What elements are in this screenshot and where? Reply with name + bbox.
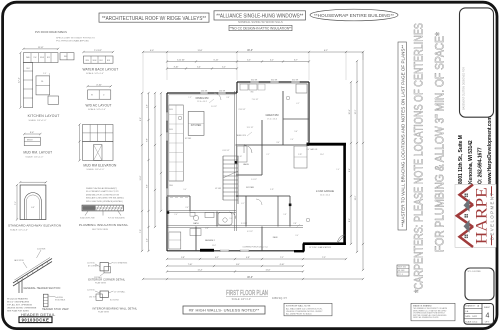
svg-text:SINK: SINK [93,60,98,62]
svg-text:Kenosha, WI 53142: Kenosha, WI 53142 [468,140,474,184]
svg-text:PLUMBING INSULATION DETAIL: PLUMBING INSULATION DETAIL [79,223,129,227]
svg-text:LAUN.: LAUN. [243,163,249,166]
svg-text:10'-1": 10'-1" [355,109,357,114]
svg-text:PLAN VIEW: PLAN VIEW [95,281,106,284]
svg-text:1'-4": 1'-4" [336,169,340,171]
svg-text:NOMINAL SIZING W/ WOOD SILLS: NOMINAL SIZING W/ WOOD SILLS [238,20,283,24]
svg-text:2'-8": 2'-8" [293,223,297,225]
svg-text:6'-10": 6'-10" [280,264,285,266]
svg-text:SCALE: 1/2"=1'-0": SCALE: 1/2"=1'-0" [10,228,28,231]
svg-text:7'-10": 7'-10" [188,264,193,266]
svg-text:DEVELOPMENT: DEVELOPMENT [490,192,495,241]
svg-text:5'-0": 5'-0" [229,218,233,220]
svg-text:4'-6": 4'-6" [147,104,149,108]
svg-text:2'-0": 2'-0" [43,73,47,75]
svg-text:7'-1": 7'-1" [280,257,284,259]
svg-text:1/4/22: 1/4/22 [472,316,477,318]
svg-text:B24: B24 [100,60,103,62]
svg-text:4: 4 [486,313,490,320]
svg-text:W/ (2)2x10 HEADERS: W/ (2)2x10 HEADERS [7,298,28,301]
svg-text:3050 SH: 3050 SH [271,80,278,82]
svg-text:2840 SH: 2840 SH [219,91,226,93]
svg-text:17'-2": 17'-2" [19,77,21,83]
svg-text:BATH: BATH [193,222,199,225]
svg-text:**HOUSEWRAP ENTIRE BUILDING**: **HOUSEWRAP ENTIRE BUILDING** [314,13,394,19]
svg-text:HEADER STUD VIEW: HEADER STUD VIEW [42,308,69,311]
svg-text:EXTERIOR WALL NOTE:: EXTERIOR WALL NOTE: [286,305,311,308]
svg-text:#9' HIGH WALLS- UNLESS NOTED**: #9' HIGH WALLS- UNLESS NOTED** [189,308,260,313]
svg-text:2'-10": 2'-10" [238,156,242,158]
svg-text:3'-0": 3'-0" [276,142,280,144]
svg-text:9'-4": 9'-4" [349,168,351,172]
svg-text:6'-11": 6'-11" [214,60,219,62]
svg-text:SCALE: 1/4"=1'-0": SCALE: 1/4"=1'-0" [86,72,104,75]
svg-text:DRAWN BY:: DRAWN BY: [465,305,476,308]
svg-text:PLAN VIEW: PLAN VIEW [98,310,109,313]
svg-text:(MIN) WALL FLEX CONSTRUCTION: (MIN) WALL FLEX CONSTRUCTION [86,193,120,196]
svg-text:**ALLIANCE SINGLE-HUNG WINDOWS: **ALLIANCE SINGLE-HUNG WINDOWS** [216,14,303,20]
svg-text:4'-8": 4'-8" [246,257,250,259]
svg-text:2x4 STUD: 2x4 STUD [87,290,96,292]
svg-text:JA: JA [477,305,480,308]
svg-text:2'-4": 2'-4" [185,207,189,209]
svg-text:W/ 1/2" OSB SPACERS: W/ 1/2" OSB SPACERS [7,301,30,304]
svg-text:6'-7": 6'-7" [294,60,298,62]
svg-text:4'-10": 4'-10" [96,84,102,86]
svg-text:20'-0": 20'-0" [320,154,324,156]
svg-text:FOR PLUMBING & ALLOW 3" MIN. O: FOR PLUMBING & ALLOW 3" MIN. OF SPACE* [433,32,447,252]
svg-text:INTERIOR BEARING WALL DETAIL: INTERIOR BEARING WALL DETAIL [92,307,137,311]
svg-text:2x6 STUD: 2x6 STUD [87,263,96,265]
svg-text:JACK STUD: JACK STUD [14,259,25,262]
svg-text:6'-2": 6'-2" [215,257,219,259]
svg-text:SPECS LIGHT W/ 8 INLET FITTING: SPECS LIGHT W/ 8 INLET FITTING TO [56,38,95,40]
svg-text:STANDARD ARCHWAY ELEVATION: STANDARD ARCHWAY ELEVATION [8,224,61,228]
svg-text:7'-2 1/2": 7'-2 1/2" [94,50,102,52]
svg-text:20'-0 x 22'-4: 20'-0 x 22'-4 [320,194,330,196]
svg-text:3050: 3050 [169,109,173,111]
svg-text:DW: DW [34,57,37,59]
svg-text:5'-0": 5'-0" [294,131,298,133]
svg-text:ISL: ISL [41,81,44,83]
svg-text:10'-8": 10'-8" [212,245,216,247]
svg-text:36" REF: 36" REF [185,138,191,140]
svg-text:5'-2": 5'-2" [222,67,226,69]
svg-text:TYP. ALL EXT. OPENINGS: TYP. ALL EXT. OPENINGS [7,304,33,307]
svg-text:3050: 3050 [169,129,173,131]
svg-text:17'-4 x 13'-6: 17'-4 x 13'-6 [267,118,277,120]
svg-text:WHEN PLACING A FRESH-AIR(?): WHEN PLACING A FRESH-AIR(?) [86,187,117,190]
svg-text:THIS DRAWING IS THE PROPERTY O: THIS DRAWING IS THE PROPERTY OF HARPE [413,307,447,310]
svg-text:SHEET: SHEET [484,307,491,309]
svg-text:GREAT RM: GREAT RM [266,114,279,117]
svg-text:46'-0": 46'-0" [247,50,253,52]
svg-text:7'-5": 7'-5" [322,257,326,259]
svg-text:4'-0": 4'-0" [147,238,149,242]
svg-text:11'-6": 11'-6" [266,270,271,272]
svg-text:KITCHEN: KITCHEN [191,124,202,127]
svg-text:11'-8": 11'-8" [38,47,44,49]
svg-text:FIRST FLOOR PLAN: FIRST FLOOR PLAN [226,288,268,297]
svg-text:9'-2": 9'-2" [140,117,142,121]
svg-text:3'-8": 3'-8" [226,97,230,99]
svg-text:INSULATE & SECURED THE INS. AN: INSULATE & SECURED THE INS. ANNUL [86,197,125,200]
svg-text:1'-2": 1'-2" [188,97,192,99]
svg-text:2840: 2840 [169,185,173,187]
svg-text:J.A.: J.A. [465,310,469,313]
svg-text:2'-4": 2'-4" [174,214,178,216]
svg-text:SCALE: 1/4"=1'-0": SCALE: 1/4"=1'-0" [25,155,43,158]
svg-text:FILL PRESENT & BATTS DUCT, 8"F: FILL PRESENT & BATTS DUCT, 8"F [86,190,119,193]
svg-text:8001 11th St., Suite M: 8001 11th St., Suite M [458,135,464,184]
svg-text:W/D AC LAYOUT: W/D AC LAYOUT [86,104,112,108]
svg-text:5'-8": 5'-8" [283,214,287,216]
svg-text:46'-0": 46'-0" [247,277,253,279]
svg-text:DBL TOP: DBL TOP [89,297,97,299]
svg-text:WDW: 3050: WDW: 3050 [398,267,406,269]
svg-text:5'-5": 5'-5" [247,60,251,62]
svg-text:10'-9": 10'-9" [349,109,351,114]
svg-text:SCALE: 1/4"=1'-0": SCALE: 1/4"=1'-0" [29,119,47,122]
svg-text:6'-8": 6'-8" [147,138,149,142]
svg-text:SCALE: 1/4"=1'-0": SCALE: 1/4"=1'-0" [232,298,252,301]
svg-text:**NO CC DESIGN-IN ATTIC INSULA: **NO CC DESIGN-IN ATTIC INSULATION** [229,26,292,30]
svg-text:7'-10 1/2": 7'-10 1/2" [252,99,259,101]
svg-text:SCALE: 1/4"=1': SCALE: 1/4"=1' [465,320,478,323]
svg-text:D: D [103,95,105,97]
svg-text:BASEMENT CUSTOM DESIGNED FOR: BASEMENT CUSTOM DESIGNED FOR [463,67,466,110]
svg-text:DEN: DEN [273,237,278,239]
svg-text:4'-2": 4'-2" [270,60,274,62]
svg-text:HARPE: HARPE [474,187,491,244]
svg-text:ALL DIMS PRIOR TO BUILD: ALL DIMS PRIOR TO BUILD [286,313,312,316]
svg-text:3'-11": 3'-11" [270,189,274,191]
svg-text:3050 SH: 3050 SH [292,80,299,82]
svg-text:3'-4": 3'-4" [30,132,35,134]
svg-text:EXT. SHEATHING: EXT. SHEATHING [114,262,128,265]
svg-text:8'-6": 8'-6" [349,218,351,222]
svg-text:5'-4 1/2": 5'-4 1/2" [251,179,257,181]
svg-text:WALL: WALL [26,56,31,59]
svg-text:90103OCKE: 90103OCKE [22,317,50,322]
svg-text:3'-0": 3'-0" [295,235,299,237]
svg-text:CASED OPG: CASED OPG [236,134,247,137]
svg-text:5'-8": 5'-8" [181,257,185,259]
svg-text:11'-6 x 10'-2: 11'-6 x 10'-2 [197,101,207,103]
svg-text:COVERED PORCH 14'-0 x 5'-0: COVERED PORCH 14'-0 x 5'-0 [242,247,267,249]
svg-text:1'-11": 1'-11" [298,154,303,156]
svg-text:UNLESS NOTED OTHERWISE: UNLESS NOTED OTHERWISE [7,308,37,310]
svg-text:**MASTER TO WALL BRACING LOCAT: **MASTER TO WALL BRACING LOCATIONS AND N… [400,45,405,227]
svg-text:13'-1 1/2": 13'-1 1/2" [247,127,254,129]
svg-text:6'-11 1/2": 6'-11 1/2" [223,150,230,152]
svg-text:4'-6": 4'-6" [205,228,209,230]
svg-text:SPILLS AS THRU (W/SPACE) A DET: SPILLS AS THRU (W/SPACE) A DETAIL) [86,200,123,203]
svg-text:B24: B24 [27,68,30,70]
svg-text:2'-11 1/2": 2'-11 1/2" [239,109,246,111]
svg-text:FLR 36" INSULATED: FLR 36" INSULATED [108,216,126,219]
svg-text:DINING RM: DINING RM [196,97,209,100]
svg-text:DR: 3068: DR: 3068 [398,270,405,272]
svg-text:3050 SH: 3050 SH [251,80,258,82]
svg-text:B18: B18 [107,60,110,62]
svg-text:FOYER: FOYER [246,187,254,189]
svg-text:BLOCKING: BLOCKING [110,300,119,302]
svg-text:B15: B15 [47,57,50,59]
svg-text:SECTION VIEW: SECTION VIEW [92,229,109,231]
svg-text:3'-1 1/2": 3'-1 1/2" [241,223,248,225]
svg-text:AT CORNER: AT CORNER [88,265,99,268]
svg-text:2'-6": 2'-6" [290,139,294,141]
svg-text:6'-8": 6'-8" [31,207,35,209]
svg-text:www.HarpeDevelopment.com: www.HarpeDevelopment.com [487,116,493,185]
svg-text:O: 262-694-1677: O: 262-694-1677 [477,147,483,184]
svg-text:STUD PACK: STUD PACK [55,299,66,302]
svg-text:BEDRM 2: BEDRM 2 [205,240,216,242]
svg-text:9'-0" GAR. DR.: 9'-0" GAR. DR. [306,148,318,151]
svg-text:MUD RM ELEVATION: MUD RM ELEVATION [83,163,117,167]
svg-text:GENERAL HEADER SECTION: GENERAL HEADER SECTION [23,287,60,290]
svg-text:2840 SH: 2840 SH [201,91,208,93]
svg-text:W/D: W/D [250,92,254,94]
svg-text:OF 7: OF 7 [485,322,490,324]
svg-text:W: W [91,95,93,97]
svg-text:5'-11 1/2": 5'-11 1/2" [177,60,185,62]
svg-text:BENCH: BENCH [27,139,33,141]
svg-text:3'-10": 3'-10" [174,67,179,69]
svg-text:ALL WALLS ARE 2x4 CONSTRUCTION: ALL WALLS ARE 2x4 CONSTRUCTION, [286,307,323,310]
svg-text:MUD RM. LAYOUT: MUD RM. LAYOUT [23,151,52,155]
svg-text:11'-6": 11'-6" [140,175,142,180]
svg-text:11'-4": 11'-4" [198,270,203,272]
svg-text:4'-0": 4'-0" [150,50,154,52]
svg-text:1069 SQ. FT.: 1069 SQ. FT. [272,296,288,300]
svg-text:7'-0": 7'-0" [140,229,142,233]
svg-text:5'-4": 5'-4" [197,67,201,69]
svg-text:W30: W30 [86,60,90,62]
svg-text:6'-2": 6'-2" [324,50,328,52]
svg-text:*CARPENTERS: PLEASE NOTE LOCAT: *CARPENTERS: PLEASE NOTE LOCATIONS OF CE… [412,23,426,293]
svg-text:9P1-1-2022BD: 9P1-1-2022BD [468,271,482,273]
svg-text:IMAGE IS SHARED:: IMAGE IS SHARED: [413,304,432,307]
svg-text:1/2" DRYWALL: 1/2" DRYWALL [114,291,126,294]
svg-text:6'-1": 6'-1" [241,203,245,205]
svg-text:6'-2 1/2": 6'-2 1/2" [247,231,253,233]
svg-text:KITCHEN LAYOUT: KITCHEN LAYOUT [28,114,60,118]
svg-text:SCALE: 1/4"=1'-0": SCALE: 1/4"=1'-0" [88,108,106,111]
svg-text:SINK: SINK [40,57,45,59]
svg-text:2-CAR GARAGE: 2-CAR GARAGE [316,190,334,193]
svg-text:SCALE: 1/4"=1'-0": SCALE: 1/4"=1'-0" [86,168,104,171]
svg-text:REF: REF [64,56,67,58]
svg-text:PVC ROOF DRAIN SPECS: PVC ROOF DRAIN SPECS [35,30,67,34]
svg-text:2x10 HDR: 2x10 HDR [37,249,46,251]
svg-text:8'-0": 8'-0" [236,264,240,266]
svg-text:**ARCHITECTURAL ROOF W/ RIDGE: **ARCHITECTURAL ROOF W/ RIDGE VALLEYS** [102,16,206,22]
svg-text:WATER BACK LAYOUT: WATER BACK LAYOUT [83,67,119,71]
svg-text:SLAB LEVEL RIM: SLAB LEVEL RIM [80,216,95,219]
svg-text:7'-1": 7'-1" [15,201,17,205]
svg-text:UP 14R: UP 14R [215,188,222,190]
svg-text:11'-8": 11'-8" [198,50,203,52]
svg-text:EXTERIOR CORNER DETAIL: EXTERIOR CORNER DETAIL [88,278,125,282]
svg-text:18'-2": 18'-2" [355,195,357,200]
svg-text:DATE:: DATE: [465,315,471,318]
svg-text:4'-2": 4'-2" [296,103,300,105]
svg-text:2'-2": 2'-2" [266,154,270,156]
svg-text:9'-0": 9'-0" [183,189,187,191]
svg-text:QTY: 8: QTY: 8 [398,274,403,276]
svg-text:8'-6": 8'-6" [147,184,149,188]
svg-text:16" CONC. SLAB W/ APRON: 16" CONC. SLAB W/ APRON [309,246,332,249]
svg-text:PVC PIPING W/ DRAIN APPLIED: PVC PIPING W/ DRAIN APPLIED [56,39,89,42]
svg-text:5'-0 1/2": 5'-0 1/2" [211,106,217,108]
